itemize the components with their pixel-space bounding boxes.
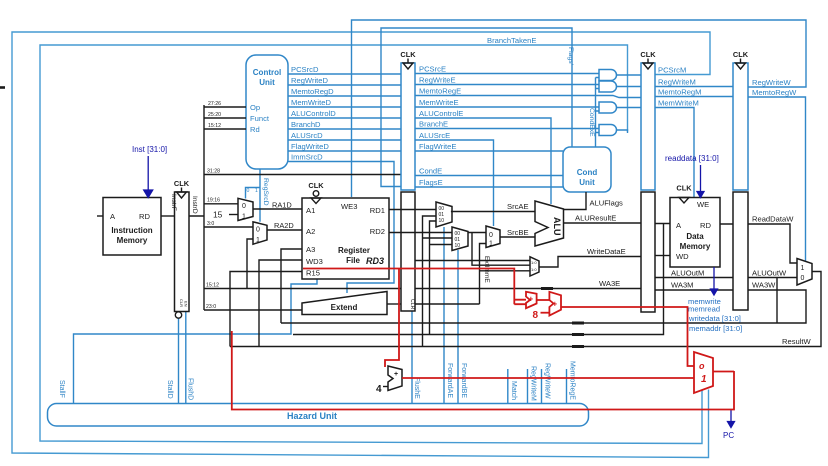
svg-text:15: 15 [213, 210, 223, 220]
svg-text:ALUControlD: ALUControlD [291, 109, 336, 118]
svg-text:RA1D: RA1D [272, 201, 292, 210]
wire FlagWriteE to Cond Unit [415, 150, 563, 152]
wire MemtoRegE [415, 96, 641, 98]
svg-text:1: 1 [255, 188, 258, 194]
wire ForwardAE select to SrcA forward mux [443, 227, 445, 404]
svg-text:PCSrcM: PCSrcM [658, 66, 686, 75]
svg-text:A2: A2 [306, 227, 315, 236]
svg-text:23:0: 23:0 [206, 304, 216, 310]
svg-text:ALUSrcE: ALUSrcE [419, 131, 450, 140]
svg-text:0: 0 [242, 203, 246, 210]
wire ResultW forward vertical [423, 216, 453, 347]
clock CLK D/E [400, 50, 416, 69]
svg-text:MemtoRegD: MemtoRegD [291, 87, 334, 96]
wire gate RegWrite output [617, 86, 642, 88]
pipeline register E/M control [641, 63, 655, 190]
wire ReadDataW from DM through M/W [720, 224, 797, 263]
arrow readdata into data memory WE [697, 165, 704, 198]
svg-text:A1: A1 [306, 206, 315, 215]
wire 23:0 to Extend [204, 309, 302, 311]
svg-text:3:0: 3:0 [207, 221, 214, 227]
svg-text:CLK: CLK [640, 50, 656, 59]
wire 25:20 Funct tap [204, 117, 246, 119]
svg-text:31:28: 31:28 [207, 169, 220, 175]
svg-text:PC: PC [723, 431, 734, 440]
svg-text:WA3W: WA3W [752, 281, 776, 290]
svg-text:RD1: RD1 [370, 206, 385, 215]
wire FlagWriteD [288, 150, 401, 152]
forward mux B [452, 227, 468, 251]
svg-text:RegWriteE: RegWriteE [419, 76, 456, 85]
AND gate BranchTaken [599, 125, 617, 136]
svg-text:CLK: CLK [308, 181, 324, 190]
svg-text:+: + [553, 300, 558, 309]
pipeline register D/E control [401, 63, 415, 190]
svg-text:EN: EN [184, 301, 189, 307]
svg-text:MemtoRegW: MemtoRegW [752, 88, 797, 97]
wire gate BranchTaken output stub [617, 130, 628, 133]
svg-text:StallF: StallF [58, 380, 65, 398]
red wire PC+8 result to PC mux [561, 307, 694, 366]
clock CLK F/D [174, 179, 190, 198]
svg-text:ALUFlags: ALUFlags [590, 199, 624, 208]
wire RD1E row to forward mux A [389, 209, 436, 211]
pipeline register M/W control [733, 63, 748, 190]
svg-text:RD: RD [700, 221, 711, 230]
svg-text:InstrD: InstrD [191, 196, 198, 214]
svg-text:19:16: 19:16 [207, 198, 220, 204]
svg-text:ALU: ALU [552, 217, 562, 236]
wire ALUControlD [288, 117, 401, 119]
svg-text:27:26: 27:26 [208, 101, 221, 107]
svg-text:ALUOutM: ALUOutM [671, 269, 704, 278]
arrow memwrite below data memory [711, 267, 718, 295]
svg-text:CLR: CLR [179, 299, 184, 307]
svg-text:CLK: CLK [676, 184, 692, 193]
svg-text:CLR: CLR [409, 299, 415, 310]
wire ExtImmE riser to SrcB mux input 1 [415, 233, 530, 305]
svg-text:ReadDataW: ReadDataW [752, 215, 794, 224]
wire Match to hazard unit [507, 369, 509, 404]
red wire R15 PC+8 annotation [303, 269, 526, 305]
wire ALUSrcE to SrcB mux select [415, 140, 494, 226]
wire BranchTakenE loop to PC mux select [40, 45, 702, 444]
wire 4 into adder [383, 386, 388, 388]
clock CLK M/W [733, 50, 749, 69]
svg-text:FlushD: FlushD [187, 378, 194, 400]
svg-text:FlushE: FlushE [413, 377, 420, 399]
wire 15 to mux [229, 214, 238, 216]
arrow Inst into instruction memory [144, 156, 153, 198]
svg-text:ForwardAE: ForwardAE [446, 363, 453, 398]
wire 19:16 to RA1 mux [204, 203, 238, 205]
svg-text:RD2: RD2 [370, 227, 385, 236]
WriteData tap box [530, 257, 539, 276]
svg-text:BranchD: BranchD [291, 120, 321, 129]
wire CondExE from Cond Unit to gates [596, 78, 600, 148]
wire gate PCSrc output [617, 74, 642, 76]
svg-text:MemWriteM: MemWriteM [658, 99, 699, 108]
bubble EN on F/D register [175, 312, 181, 318]
Cond Unit box [563, 147, 611, 192]
svg-text:WA3M: WA3M [671, 281, 694, 290]
svg-text:1: 1 [489, 241, 493, 248]
wire MemWriteD [288, 106, 401, 108]
svg-text:FlagWriteE: FlagWriteE [419, 142, 456, 151]
svg-text:SrcBE: SrcBE [507, 228, 529, 237]
wire memread jog on ALUOutM line [776, 278, 778, 324]
wire RegWriteM [655, 86, 733, 88]
svg-text:1:0: 1:0 [531, 260, 537, 265]
wire RA1D to register file [253, 208, 302, 210]
wire BranchE to AND gate [415, 128, 599, 130]
svg-text:PCSrcD: PCSrcD [291, 65, 319, 74]
wire A input stub [97, 215, 103, 217]
svg-text:Register: Register [338, 246, 370, 255]
clock CLK data memory [676, 184, 692, 204]
svg-text:0: 0 [247, 188, 250, 194]
svg-text:memread: memread [688, 305, 720, 314]
svg-text:SrcAE: SrcAE [507, 202, 529, 211]
svg-text:ALUOutW: ALUOutW [752, 269, 787, 278]
svg-text:o: o [699, 361, 705, 371]
svg-text:0: 0 [801, 275, 805, 282]
extend unit [302, 292, 387, 315]
tick marks on bottom return lines [572, 323, 584, 347]
data memory box [670, 198, 720, 268]
wire ALUOutM spine: E/M to DM address and down to return line [293, 224, 670, 335]
wire MemtoRegE to hazard unit [566, 369, 568, 404]
wire R15 feed [230, 272, 302, 347]
svg-text:15:12: 15:12 [208, 123, 221, 129]
wire RA2D to register file [267, 229, 302, 231]
svg-text:8: 8 [533, 310, 539, 321]
wire CondE to Cond Unit [415, 175, 563, 177]
svg-text:Extend: Extend [331, 303, 358, 312]
arrow PC [728, 410, 735, 428]
svg-text:A3: A3 [306, 245, 315, 254]
red wire branch to +4 adder [385, 269, 399, 368]
wire 8 into adder2 [541, 312, 550, 314]
hazard unit box [48, 404, 589, 427]
svg-text:Unit: Unit [579, 178, 595, 187]
svg-text:1: 1 [801, 265, 805, 272]
wire A3 feed from WA3W return [281, 249, 302, 323]
black tick at left edge [0, 86, 5, 89]
svg-text:CLK: CLK [174, 179, 190, 188]
mux RA2D [253, 222, 267, 244]
svg-text:BranchTakenE: BranchTakenE [487, 36, 536, 45]
wire ALUOutW row [748, 277, 797, 279]
svg-text:RegWriteW: RegWriteW [752, 78, 792, 87]
svg-text:RA2D: RA2D [274, 221, 294, 230]
wire SrcAE to ALU [451, 211, 535, 213]
svg-text:WA3E: WA3E [599, 279, 620, 288]
pipeline register M/W datapath [733, 192, 748, 310]
wire 15:12 Rd tap [204, 128, 246, 130]
mux SrcB 0/1 [486, 226, 500, 248]
wire ALUSrcD [288, 139, 401, 141]
red adder +8 second stage [549, 292, 561, 316]
svg-text:Unit: Unit [259, 78, 275, 87]
svg-text:CondE: CondE [419, 167, 442, 176]
wire InstrD bus from F/D register [189, 105, 204, 310]
wire 3:0 to RA2 mux [204, 226, 253, 228]
svg-text:Inst [31:0]: Inst [31:0] [132, 145, 167, 154]
svg-text:+: + [394, 371, 398, 378]
svg-text:RD: RD [139, 212, 150, 221]
clock CLK register file [308, 181, 324, 204]
svg-text:RegWriteW: RegWriteW [544, 363, 551, 399]
svg-text:RegSrcD: RegSrcD [262, 178, 269, 206]
wire FlushD from hazard unit to F/D clear [185, 312, 187, 404]
wire WriteDataM to data memory WD [655, 255, 670, 257]
wire gate MemWrite output [617, 107, 642, 109]
svg-text:readdata [31:0]: readdata [31:0] [665, 154, 719, 163]
svg-text:InstrF: InstrF [170, 194, 177, 211]
svg-text:PCSrcE: PCSrcE [419, 65, 446, 74]
wire WA3M row [655, 289, 733, 291]
svg-text:memaddr [31:0]: memaddr [31:0] [689, 324, 742, 333]
wire MemWriteE to AND gate [415, 106, 599, 108]
wire RegWriteM to hazard unit [527, 369, 529, 404]
svg-text:FlagWriteD: FlagWriteD [291, 142, 329, 151]
svg-text:BranchE: BranchE [419, 120, 448, 129]
svg-text:Op: Op [250, 103, 260, 112]
AND gate PCSrc [599, 70, 617, 81]
svg-text:1: 1 [701, 374, 707, 385]
wire 15:12 to RA2D mux input 1 [247, 239, 253, 289]
wire MemtoRegM [655, 96, 733, 98]
wire WA3W return to A3 [281, 290, 806, 323]
svg-text:FlagsE: FlagsE [419, 178, 443, 187]
svg-text:MemWriteD: MemWriteD [291, 98, 331, 107]
wire WriteDataE to E/M register [539, 257, 641, 268]
svg-text:ALUResultE: ALUResultE [575, 214, 616, 223]
svg-text:WE: WE [697, 200, 709, 209]
svg-text:CondExE: CondExE [588, 108, 595, 137]
wire RegWriteD [288, 84, 401, 86]
svg-text:Data: Data [686, 232, 704, 241]
wire StallF from hazard unit to register file bottom [74, 278, 318, 404]
svg-text:RegWriteM: RegWriteM [658, 78, 696, 87]
svg-text:10: 10 [439, 218, 445, 224]
svg-text:Hazard Unit: Hazard Unit [287, 411, 337, 421]
mux RA1D [238, 198, 253, 220]
svg-text:1:0: 1:0 [531, 267, 537, 272]
wire 27:26 Op tap [204, 106, 246, 108]
red wire PC mux output [713, 371, 734, 373]
wire ALUControlE to ALU [415, 118, 551, 204]
wire ResultW from mux around bottom [230, 272, 821, 347]
svg-text:4: 4 [376, 384, 382, 395]
svg-text:ResultW: ResultW [782, 337, 812, 346]
wire FlagsE to Cond Unit [415, 186, 563, 188]
AND gate RegWrite [599, 81, 617, 92]
wire 15:12 WA3D row [204, 288, 401, 290]
red wire adder1 to adder2 [537, 299, 550, 301]
svg-text:ForwardBE: ForwardBE [460, 363, 467, 398]
svg-text:MemtoRegM: MemtoRegM [658, 88, 701, 97]
svg-text:StallD: StallD [166, 380, 173, 399]
wire BranchD [288, 128, 401, 130]
wire RD to F/D register [161, 215, 175, 217]
svg-text:1: 1 [256, 237, 260, 244]
wire MemWriteM to data memory WE [655, 108, 694, 198]
wire MemtoRegD [288, 95, 401, 97]
wire ALUResultE to E/M register [564, 222, 642, 224]
wire RegSrcD from control unit to register source muxes [246, 169, 261, 222]
pipeline register F/D [175, 192, 190, 312]
red adder +8 first stage [526, 292, 537, 308]
svg-text:+: + [529, 295, 534, 304]
svg-text:Rd: Rd [250, 125, 260, 134]
svg-text:R15: R15 [306, 269, 320, 278]
svg-text:RD3: RD3 [366, 256, 384, 266]
pipeline register D/E datapath [401, 192, 415, 311]
svg-text:Memory: Memory [680, 242, 711, 251]
wire WD3 feed from ResultW [259, 260, 302, 347]
svg-text:MemtoRegE: MemtoRegE [569, 361, 576, 400]
forward mux A [436, 202, 452, 227]
svg-text:Control: Control [253, 68, 281, 77]
wire RD2E row to forward mux B [389, 232, 452, 234]
svg-text:0: 0 [256, 227, 260, 234]
svg-text:MemtoRegE: MemtoRegE [419, 87, 461, 96]
pipeline register E/M datapath [641, 192, 655, 312]
red wire PC+4 to PC mux input 1 [402, 377, 694, 379]
red PC mux hand drawn [694, 352, 713, 393]
control unit box [246, 55, 288, 169]
wire ALUOutM forward vertical [430, 221, 453, 335]
svg-text:RegWriteD: RegWriteD [291, 76, 329, 85]
svg-text:CLK: CLK [733, 50, 749, 59]
ALU [535, 201, 564, 246]
svg-text:WriteDataE: WriteDataE [587, 247, 626, 256]
svg-text:1: 1 [242, 214, 246, 221]
result mux 1/0 [797, 259, 812, 286]
black +4 adder [388, 366, 402, 391]
wire StallD from hazard unit to F/D enable bubble [178, 318, 180, 403]
svg-text:writedata [31:0]: writedata [31:0] [688, 314, 741, 323]
wire WA3E to E/M register [415, 288, 641, 290]
wire Flags' feedback from Cond Unit to FlagsD [381, 28, 572, 187]
AND gate MemWrite [599, 102, 617, 113]
svg-text:CLK: CLK [400, 50, 416, 59]
svg-text:ExtImmE: ExtImmE [483, 256, 490, 283]
clock CLK E/M [640, 50, 656, 69]
svg-text:RegWriteM: RegWriteM [530, 366, 537, 401]
svg-text:Funct: Funct [250, 114, 270, 123]
svg-text:ImmSrcD: ImmSrcD [291, 153, 323, 162]
svg-text:Memory: Memory [117, 236, 148, 245]
wire MemtoRegW to result mux select [748, 97, 806, 262]
svg-text:ALUSrcD: ALUSrcD [291, 131, 323, 140]
instruction memory box [103, 198, 161, 256]
tick WA3E [541, 287, 553, 290]
wire PCSrcD [288, 73, 401, 75]
svg-text:ALUControlE: ALUControlE [419, 109, 463, 118]
svg-text:WE3: WE3 [341, 202, 357, 211]
wire forward mux B to SrcB mux [468, 232, 487, 234]
wire ALUOutM row between registers [655, 277, 733, 279]
svg-text:0: 0 [489, 232, 493, 239]
wire RegWriteE to AND gate [415, 84, 599, 86]
svg-text:25:20: 25:20 [208, 112, 221, 118]
svg-text:File: File [346, 256, 360, 265]
register file box [302, 198, 389, 279]
svg-text:15:12: 15:12 [206, 283, 219, 289]
svg-text:Flags': Flags' [567, 47, 574, 65]
wire Extend output ExtImmD [387, 303, 401, 305]
wire PCSrcM loop to PC mux select [12, 32, 710, 458]
svg-text:Cond: Cond [577, 168, 598, 177]
svg-text:WD: WD [676, 252, 689, 261]
wire ForwardBE select to SrcB forward mux [457, 250, 459, 404]
svg-text:10: 10 [455, 243, 461, 249]
svg-text:Match: Match [510, 381, 517, 400]
wire RegWriteW loop to register file WE3 [352, 20, 807, 197]
red vertical from R15 line to bottom red run [232, 331, 734, 410]
wire ALUFlags from ALU to Cond Unit [564, 192, 587, 210]
svg-text:WD3: WD3 [306, 257, 323, 266]
wire SrcBE to ALU [500, 236, 535, 238]
wire ImmSrcD to Extend select [288, 162, 394, 294]
wire FlushE from hazard unit to D/E register clear [411, 312, 413, 404]
wire RegWriteW to hazard unit [541, 369, 543, 404]
wire PCSrcE to AND gate [415, 73, 599, 75]
svg-text:MemWriteE: MemWriteE [419, 98, 459, 107]
wire 31:28 cond bits to D/E [204, 174, 401, 176]
svg-text:Instruction: Instruction [111, 226, 152, 235]
